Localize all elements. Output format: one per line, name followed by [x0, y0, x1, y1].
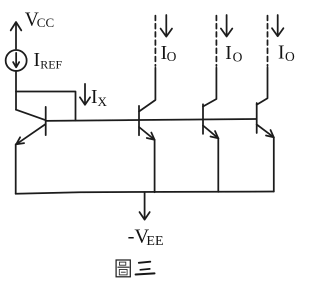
svg-text:X: X [98, 94, 108, 109]
label IREF [34, 50, 63, 72]
bottom rail -VEE [16, 192, 274, 194]
label IO 2 [225, 43, 242, 65]
svg-text:O: O [167, 49, 177, 64]
svg-text:EE: EE [146, 234, 163, 249]
power rail VCC arrow [11, 22, 22, 49]
IO annotation arrow 3 [272, 15, 283, 36]
transistor Q2 emitter [139, 127, 155, 140]
wire Q3 emitter to VEE rail [217, 138, 219, 192]
wire Q2 emitter to VEE rail [154, 140, 156, 193]
current source IREF internal arrow [13, 53, 19, 67]
dashed output lead 3 [267, 16, 269, 66]
base rail node B [46, 119, 257, 121]
svg-text:I: I [34, 50, 41, 71]
svg-text:I: I [278, 43, 285, 64]
transistor Q1 collector [16, 110, 46, 121]
IO annotation arrow 1 [161, 15, 172, 37]
transistor Q1 base bar [45, 107, 47, 135]
dashed output lead 2 [215, 16, 217, 66]
wire IX feedback loop (collector-base tie) [16, 92, 76, 121]
svg-text:O: O [285, 49, 295, 64]
dashed output lead 1 [154, 16, 156, 66]
transistor Q3 collector [203, 68, 216, 107]
label -VEE [128, 225, 164, 248]
svg-text:I: I [225, 43, 232, 64]
svg-text:REF: REF [40, 58, 62, 72]
transistor Q4 base bar [256, 103, 258, 133]
label IX [91, 87, 108, 109]
label IO 3 [278, 43, 295, 65]
label VCC [25, 10, 54, 31]
transistor Q2 collector [139, 68, 155, 112]
wire Q4 emitter to VEE rail [273, 137, 275, 191]
VEE stub arrow [140, 192, 150, 219]
wire Q1 emitter to VEE rail [15, 144, 17, 194]
svg-text:O: O [233, 49, 243, 64]
caption glyph TU (figure) [116, 260, 130, 277]
current source IREF circle [6, 50, 27, 71]
transistor Q1 emitter [16, 124, 46, 144]
transistor Q2 base bar [138, 106, 140, 135]
label IO 1 [161, 43, 177, 64]
IO annotation arrow 2 [221, 15, 232, 37]
caption glyph SAN (three) [136, 262, 155, 275]
svg-text:CC: CC [37, 15, 54, 30]
IX annotation arrow [80, 84, 90, 105]
transistor Q4 collector [257, 67, 268, 104]
transistor Q4 emitter [257, 125, 274, 138]
wire from IREF source down to Q1 collector [15, 71, 17, 110]
transistor Q3 base bar [202, 104, 204, 134]
transistor Q3 emitter [203, 126, 218, 139]
